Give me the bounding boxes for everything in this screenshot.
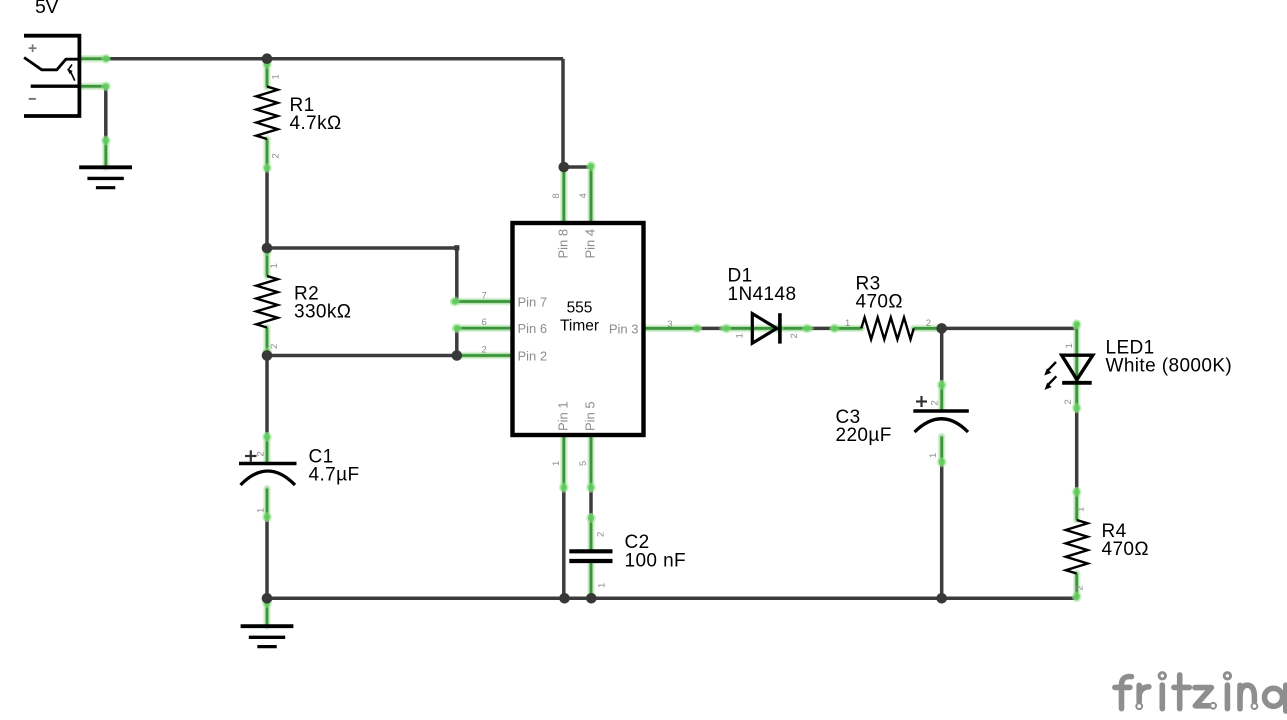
svg-text:330kΩ: 330kΩ xyxy=(294,302,351,323)
svg-text:1: 1 xyxy=(551,461,562,466)
svg-text:1N4148: 1N4148 xyxy=(728,284,797,305)
svg-text:1: 1 xyxy=(269,263,280,268)
svg-text:100 nF: 100 nF xyxy=(625,550,687,571)
svg-text:2: 2 xyxy=(256,451,267,456)
svg-text:Pin 7: Pin 7 xyxy=(518,294,548,309)
svg-text:220µF: 220µF xyxy=(836,425,892,446)
svg-text:2: 2 xyxy=(1075,585,1086,590)
svg-text:6: 6 xyxy=(482,317,487,328)
svg-text:Pin 8: Pin 8 xyxy=(556,229,571,259)
svg-text:2: 2 xyxy=(269,344,280,349)
svg-text:1: 1 xyxy=(735,333,746,338)
svg-text:4: 4 xyxy=(578,193,589,198)
svg-text:2: 2 xyxy=(789,333,800,338)
svg-text:White (8000K): White (8000K) xyxy=(1106,356,1233,377)
svg-text:2: 2 xyxy=(930,400,941,405)
svg-text:Pin 1: Pin 1 xyxy=(556,401,571,431)
svg-text:1: 1 xyxy=(1064,343,1075,348)
svg-text:7: 7 xyxy=(482,290,487,301)
svg-text:1: 1 xyxy=(928,453,939,458)
svg-text:2: 2 xyxy=(596,532,607,537)
svg-text:1: 1 xyxy=(256,508,267,513)
svg-text:1: 1 xyxy=(1076,507,1087,512)
svg-text:5V: 5V xyxy=(35,0,58,18)
svg-text:Pin 4: Pin 4 xyxy=(583,229,598,259)
svg-text:1: 1 xyxy=(271,74,282,79)
svg-text:Pin 5: Pin 5 xyxy=(583,401,598,431)
svg-text:470Ω: 470Ω xyxy=(856,292,904,313)
svg-text:470Ω: 470Ω xyxy=(1102,539,1150,560)
svg-text:2: 2 xyxy=(271,153,282,158)
svg-text:Pin 3: Pin 3 xyxy=(609,321,639,336)
svg-text:Pin 6: Pin 6 xyxy=(518,321,548,336)
svg-text:555: 555 xyxy=(567,300,593,317)
svg-text:4.7kΩ: 4.7kΩ xyxy=(290,113,342,134)
svg-text:1: 1 xyxy=(845,318,850,329)
svg-text:8: 8 xyxy=(551,193,562,198)
svg-text:3: 3 xyxy=(667,319,672,330)
svg-text:5: 5 xyxy=(578,461,589,466)
svg-text:2: 2 xyxy=(1063,399,1074,404)
svg-text:Pin 2: Pin 2 xyxy=(518,348,548,363)
svg-text:Timer: Timer xyxy=(560,318,599,335)
svg-text:4.7µF: 4.7µF xyxy=(309,465,360,486)
svg-text:2: 2 xyxy=(482,344,487,355)
svg-text:2: 2 xyxy=(926,318,931,329)
svg-text:1: 1 xyxy=(597,583,608,588)
